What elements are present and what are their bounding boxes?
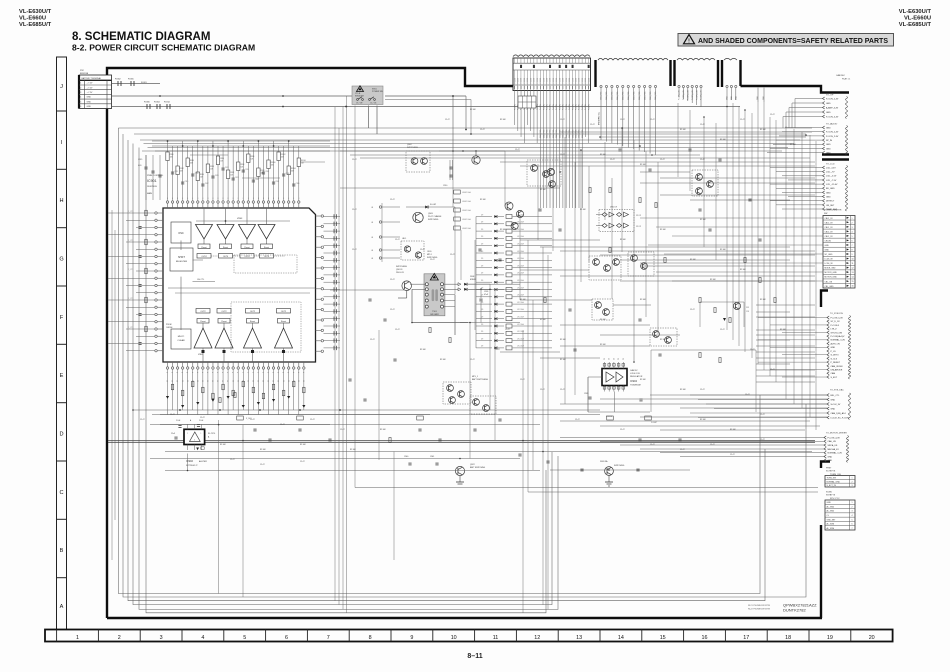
transistor	[733, 302, 740, 309]
wire bundle flex group2	[678, 85, 703, 107]
svg-text:R9 10K: R9 10K	[470, 109, 477, 111]
svg-text:C941: C941	[430, 456, 434, 458]
svg-text:MPL1: MPL1	[427, 254, 432, 256]
svg-text:C9 47: C9 47	[560, 119, 565, 121]
svg-text:REGULATOR: REGULATOR	[630, 375, 643, 378]
svg-text:C9 47: C9 47	[745, 394, 750, 396]
svg-text:D9: D9	[481, 265, 483, 267]
svg-text:On / Off: On / Off	[356, 102, 363, 104]
IC901 out latch row bottom	[196, 302, 301, 352]
svg-text:LCD6_3V: LCD6_3V	[825, 259, 834, 261]
svg-text:TO CAMERA: TO CAMERA	[597, 112, 600, 126]
svg-text:P-CON: P-CON	[540, 104, 542, 110]
svg-text:0.01: 0.01	[138, 165, 142, 167]
wire transformer primary	[398, 284, 468, 322]
svg-text:C9 47: C9 47	[310, 419, 315, 421]
svg-text:CAM_REG: CAM_REG	[616, 91, 619, 100]
svg-text:FL-DDB: FL-DDB	[606, 416, 613, 418]
wire main bus pair D row	[108, 441, 815, 443]
svg-text:R9 10K: R9 10K	[760, 299, 767, 301]
svg-text:P-CON: P-CON	[524, 77, 526, 83]
svg-text:CAM_REG: CAM_REG	[611, 91, 614, 100]
diode D905	[406, 204, 455, 208]
svg-text:8: 8	[852, 249, 853, 251]
svg-text:LCD4.2-5V: LCD4.2-5V	[630, 373, 641, 375]
svg-text:P-CON_4-3V: P-CON_4-3V	[696, 89, 698, 100]
node left terminal column	[371, 206, 400, 260]
svg-text:R9: R9	[197, 380, 199, 382]
svg-text:VREF: VREF	[237, 218, 243, 220]
svg-text:C9: C9	[604, 358, 606, 360]
svg-text:L9 2.2uH: L9 2.2uH	[517, 258, 525, 260]
transistor	[595, 302, 602, 309]
svg-text:R984: R984	[190, 160, 194, 162]
svg-text:D9: D9	[481, 346, 483, 348]
svg-text:2: 2	[118, 635, 121, 641]
svg-text:C_CTL: C_CTL	[128, 269, 133, 271]
svg-text:OSC: OSC	[178, 231, 184, 235]
svg-text:C9 47: C9 47	[420, 249, 425, 251]
svg-text:SW-MODE: SW-MODE	[355, 95, 365, 97]
svg-text:2: 2	[852, 222, 853, 224]
svg-text:C9 47: C9 47	[395, 329, 400, 331]
svg-text:C9 47: C9 47	[340, 429, 345, 431]
svg-text:R9: R9	[182, 380, 184, 382]
svg-text:C915: C915	[195, 173, 199, 175]
svg-text:P-CON: P-CON	[585, 104, 587, 110]
svg-text:R992: R992	[230, 172, 234, 174]
svg-text:L9 2.2uH: L9 2.2uH	[517, 302, 525, 304]
svg-text:C9 47: C9 47	[445, 119, 450, 121]
svg-text:C9 47: C9 47	[700, 159, 705, 161]
svg-text:Q901 S: Q901 S	[396, 269, 403, 271]
svg-text:CAM_REG: CAM_REG	[571, 129, 574, 138]
connector TO_OP labels	[823, 95, 848, 119]
svg-text:P-CON: P-CON	[543, 104, 545, 110]
svg-text:R9 10K: R9 10K	[680, 389, 687, 391]
wire junction dots	[132, 95, 807, 471]
svg-text:CAM_REG: CAM_REG	[539, 129, 542, 138]
svg-text:P-CON: P-CON	[588, 104, 590, 110]
svg-text:P-CON: P-CON	[530, 77, 532, 83]
svg-text:R9 10K: R9 10K	[440, 359, 447, 361]
transistor group Q917	[628, 252, 654, 276]
svg-text:CAM_REG: CAM_REG	[568, 129, 571, 138]
svg-text:P-CON_5-3V: P-CON_5-3V	[831, 317, 844, 319]
transistor group Q906 MPL switching	[401, 238, 424, 260]
svg-text:L9 2.2uH: L9 2.2uH	[517, 346, 525, 348]
svg-text:2SK-LC8: 2SK-LC8	[396, 272, 404, 274]
inductor FL805	[128, 79, 148, 87]
svg-text:C9 47: C9 47	[250, 419, 255, 421]
svg-text:C915: C915	[138, 159, 142, 161]
svg-text:R9102: R9102	[281, 154, 286, 156]
svg-text:R9 10K: R9 10K	[730, 429, 737, 431]
svg-text:D9: D9	[481, 338, 483, 340]
svg-text:C9 47: C9 47	[730, 454, 735, 456]
svg-text:C933: C933	[286, 173, 290, 175]
svg-text:BATT SWITCHING: BATT SWITCHING	[470, 466, 486, 469]
svg-text:CAM_1(M)_ADJ: CAM_1(M)_ADJ	[831, 412, 846, 415]
svg-text:4: 4	[80, 97, 81, 99]
connector TO_SYSCON labels	[827, 313, 851, 379]
svg-text:P-CON(LA-3)V: P-CON(LA-3)V	[831, 335, 845, 338]
svg-text:P-CON: P-CON	[553, 77, 555, 83]
svg-text:L9 2.2uH: L9 2.2uH	[517, 309, 525, 311]
svg-text:14: 14	[618, 635, 624, 641]
svg-text:R9: R9	[218, 380, 220, 382]
svg-text:C917: C917	[205, 183, 209, 185]
svg-text:LCD_4.5V: LCD_4.5V	[826, 167, 836, 169]
svg-text:R9: R9	[167, 380, 169, 382]
svg-text:C925: C925	[245, 169, 249, 171]
svg-text:SWITCHING: SWITCHING	[614, 465, 625, 467]
svg-text:SW-XMFR: SW-XMFR	[430, 314, 439, 316]
svg-text:22uF: 22uF	[171, 433, 175, 435]
svg-text:R9 10K: R9 10K	[720, 139, 727, 141]
svg-text:D9: D9	[481, 229, 483, 231]
svg-text:NORMAL_5-3V: NORMAL_5-3V	[828, 452, 843, 455]
svg-text:D920 3A: D920 3A	[600, 460, 608, 463]
svg-text:+ 7.2V: + 7.2V	[87, 92, 94, 94]
svg-text:C9 47: C9 47	[620, 119, 625, 121]
capacitor cluster above IC901 left	[138, 155, 162, 200]
svg-text:C929: C929	[265, 171, 269, 173]
svg-text:C9: C9	[618, 358, 620, 360]
svg-text:R9 10K: R9 10K	[380, 429, 387, 431]
transistor	[458, 391, 465, 398]
svg-text:SSTBTYS: SSTBTYS	[826, 495, 836, 497]
svg-text:CAM_REG: CAM_REG	[605, 91, 608, 100]
wire loop rectangles	[118, 128, 806, 613]
svg-text:R9 10K: R9 10K	[710, 279, 717, 281]
transistor	[505, 202, 513, 210]
svg-text:C9 47: C9 47	[575, 419, 580, 421]
svg-text:C9 47: C9 47	[660, 159, 665, 161]
transistor	[707, 181, 714, 188]
svg-text:8: 8	[369, 635, 372, 641]
inductor FL814	[164, 102, 171, 110]
svg-text:A: A	[60, 604, 64, 610]
svg-text:P-CON: P-CON	[540, 77, 542, 83]
svg-text:TO_SYS_DAC: TO_SYS_DAC	[830, 389, 844, 392]
svg-text:D9: D9	[481, 258, 483, 260]
svg-text:OUT2: OUT2	[250, 311, 256, 313]
svg-text:R9: R9	[248, 380, 250, 382]
svg-text:RL-Y970: RL-Y970	[208, 433, 215, 435]
svg-text:SW: SW	[824, 213, 827, 215]
svg-text:12: 12	[534, 635, 540, 641]
svg-text:Reset: Reset	[201, 246, 207, 249]
wire vertical bundles	[219, 96, 816, 613]
svg-text:CH CTL: CH CTL	[197, 279, 205, 281]
svg-text:P-CON: P-CON	[553, 104, 555, 110]
svg-text:AUTO_3V: AUTO_3V	[831, 342, 841, 345]
svg-text:VL-E660U: VL-E660U	[19, 16, 46, 22]
svg-text:R9 10K: R9 10K	[690, 259, 697, 261]
svg-text:SWITCHING: SWITCHING	[428, 219, 439, 221]
svg-text:CAM_REG: CAM_REG	[578, 129, 581, 138]
svg-text:MOTOR_GND: MOTOR_GND	[825, 272, 838, 274]
svg-text:R9: R9	[293, 380, 295, 382]
svg-text:P-CON: P-CON	[575, 77, 577, 83]
svg-text:R9: R9	[278, 380, 280, 382]
svg-text:C9 47: C9 47	[230, 459, 235, 461]
svg-text:R9: R9	[208, 380, 210, 382]
svg-text:VL-E660U: VL-E660U	[904, 16, 931, 22]
transistor	[413, 212, 423, 222]
transistor Q902	[411, 158, 418, 165]
svg-text:R9 10K: R9 10K	[420, 349, 427, 351]
svg-text:CAM_VDDM: CAM_VDDM	[831, 365, 843, 368]
svg-text:GND: GND	[826, 148, 831, 150]
svg-text:P-CON: P-CON	[585, 77, 587, 83]
svg-text:CBL_GND: CBL_GND	[825, 286, 835, 288]
svg-text:R9 10K: R9 10K	[700, 419, 707, 421]
svg-text:R9: R9	[283, 380, 285, 382]
svg-text:P-CON_4-3V: P-CON_4-3V	[828, 437, 841, 439]
svg-text:C9 47: C9 47	[650, 119, 655, 121]
connector POWER SW table	[823, 210, 855, 289]
svg-text:L9 2.2uH: L9 2.2uH	[517, 280, 525, 282]
svg-text:C921: C921	[225, 167, 229, 169]
svg-text:IC902: IC902	[186, 459, 193, 463]
transistor group Q910	[527, 160, 561, 186]
svg-text:3: 3	[80, 92, 81, 94]
svg-text:Q902: Q902	[407, 144, 412, 146]
svg-text:SRCA_US: SRCA_US	[828, 444, 838, 447]
svg-text:ON_SET: ON_SET	[826, 205, 835, 207]
IC901 internal shift register block	[170, 248, 193, 271]
svg-text:CAM: CAM	[831, 372, 836, 375]
svg-text:CBL2_3V: CBL2_3V	[825, 218, 834, 220]
label CAB REC PLAY	[836, 74, 851, 81]
svg-text:L906 2.2uH: L906 2.2uH	[462, 210, 472, 212]
svg-text:7: 7	[327, 635, 330, 641]
svg-text:R9 10K: R9 10K	[720, 249, 727, 251]
transistor	[447, 385, 454, 392]
svg-text:CAM_REG: CAM_REG	[600, 91, 603, 100]
svg-text:CAM_REG: CAM_REG	[542, 129, 545, 138]
op-amp U IC904 regulator	[602, 358, 643, 392]
svg-text:LCD_-7.5V: LCD_-7.5V	[826, 180, 837, 182]
svg-text:D9: D9	[481, 309, 483, 311]
svg-text:YUM2856M: YUM2856M	[630, 385, 641, 387]
svg-text:OUT4: OUT4	[244, 256, 250, 258]
IC901 left pins	[155, 212, 163, 352]
transistor	[516, 210, 523, 217]
svg-text:D9: D9	[481, 280, 483, 282]
svg-text:R9 10K: R9 10K	[560, 359, 567, 361]
svg-text:CAM_REG: CAM_REG	[622, 91, 625, 100]
svg-text:Oa / Ob: Oa / Ob	[370, 102, 376, 104]
IC901 internal multi clear block	[166, 324, 191, 349]
svg-text:GND: GND	[826, 144, 831, 146]
transistor	[455, 466, 464, 475]
transistor	[696, 174, 703, 181]
svg-text:MULTI: MULTI	[178, 336, 185, 338]
svg-text:R9 10K: R9 10K	[790, 144, 797, 146]
svg-text:GND: GND	[828, 460, 833, 462]
svg-text:P-CON: P-CON	[579, 77, 581, 83]
transistor group Q919	[592, 299, 613, 320]
svg-text:CBL_ON: CBL_ON	[825, 281, 833, 283]
svg-text:C923: C923	[235, 177, 239, 179]
transistor group Q902 Q903 switching	[406, 144, 430, 172]
svg-text:FL806: FL806	[144, 102, 151, 104]
svg-text:R982: R982	[180, 168, 184, 170]
svg-text:L9 2.2uH: L9 2.2uH	[517, 324, 525, 326]
svg-text:OR-D: OR-D	[427, 251, 432, 253]
svg-text:P-CON: P-CON	[588, 77, 590, 83]
svg-text:R9106: R9106	[301, 160, 306, 162]
svg-text:R9: R9	[238, 380, 240, 382]
svg-text:FL801: FL801	[141, 82, 148, 84]
wire battery gnd bus	[112, 106, 741, 108]
svg-text:P-CON: P-CON	[566, 77, 568, 83]
svg-text:11: 11	[852, 263, 854, 265]
svg-text:L9 2.2uH: L9 2.2uH	[517, 244, 525, 246]
svg-text:MOTOR_GND: MOTOR_GND	[825, 277, 838, 279]
wire box around Q923	[700, 302, 749, 327]
svg-text:AL_VDM: AL_VDM	[827, 523, 835, 526]
svg-text:AL_GND: AL_GND	[827, 510, 835, 513]
svg-text:BFL_CTL: BFL_CTL	[831, 395, 841, 397]
svg-text:C9 47: C9 47	[770, 369, 775, 371]
svg-text:POWER HDMHTR: POWER HDMHTR	[824, 210, 842, 212]
svg-text:17: 17	[743, 635, 749, 641]
svg-text:R9: R9	[233, 380, 235, 382]
svg-text:R9: R9	[243, 380, 245, 382]
svg-text:OUT2: OUT2	[200, 311, 206, 313]
svg-text:L9 2.2uH: L9 2.2uH	[517, 251, 525, 253]
svg-text:C9 47: C9 47	[495, 349, 500, 351]
svg-text:8-2. POWER CIRCUIT SCHEMATIC D: 8-2. POWER CIRCUIT SCHEMATIC DIAGRAM	[72, 43, 255, 53]
transistor group Q916	[589, 256, 621, 280]
svg-text:R9: R9	[263, 380, 265, 382]
svg-text:PILOT CHARGE: PILOT CHARGE	[428, 215, 442, 218]
svg-text:C9 47: C9 47	[200, 417, 205, 419]
svg-text:10: 10	[852, 259, 854, 261]
svg-text:C9 47: C9 47	[520, 379, 525, 381]
transistor	[543, 171, 550, 178]
svg-text:MODE_GND: MODE_GND	[825, 268, 837, 270]
wire bundle flex group3	[726, 85, 765, 102]
svg-text:L906 2.2uH: L906 2.2uH	[462, 228, 472, 230]
svg-text:R9: R9	[288, 380, 290, 382]
IC901 bottom pins	[166, 362, 305, 373]
svg-text:R9: R9	[172, 380, 174, 382]
svg-text:BU_GND: BU_GND	[826, 188, 835, 190]
svg-text:P-CON: P-CON	[534, 77, 536, 83]
page header models left	[19, 9, 52, 28]
svg-text:P-CON: P-CON	[575, 104, 577, 110]
svg-text:OUT4: OUT4	[223, 256, 229, 258]
switch S901 POWER SW (safety shaded)	[352, 86, 383, 105]
svg-text:5: 5	[852, 236, 853, 238]
svg-text:C_CTL: C_CTL	[128, 327, 133, 329]
svg-text:C9 47: C9 47	[505, 329, 510, 331]
wire bundle CN901 outputs	[514, 91, 590, 209]
svg-text:D9: D9	[481, 302, 483, 304]
svg-text:R9: R9	[298, 380, 300, 382]
svg-text:P-CON: P-CON	[556, 104, 558, 110]
svg-text:CBL2_3V: CBL2_3V	[825, 231, 834, 233]
svg-text:AL_VDM: AL_VDM	[827, 527, 835, 530]
svg-text:L9 2.2uH: L9 2.2uH	[517, 338, 525, 340]
svg-text:6: 6	[285, 635, 288, 641]
svg-text:PLAY 1 1: PLAY 1 1	[842, 78, 851, 81]
svg-text:R9: R9	[213, 380, 215, 382]
svg-text:R9 10K: R9 10K	[640, 379, 647, 381]
svg-text:LCD-E_SC_P-CON: LCD-E_SC_P-CON	[831, 417, 850, 419]
svg-text:C9 47: C9 47	[760, 414, 765, 416]
svg-text:1: 1	[852, 477, 853, 479]
transistor	[603, 309, 610, 316]
svg-text:Reset: Reset	[223, 246, 229, 249]
svg-text:D911 D9: D911 D9	[610, 207, 617, 209]
svg-text:Reset: Reset	[250, 320, 256, 323]
svg-text:8. SCHEMATIC DIAGRAM: 8. SCHEMATIC DIAGRAM	[72, 31, 210, 43]
svg-text:R9 10K: R9 10K	[680, 129, 687, 131]
svg-text:IC901: IC901	[147, 179, 157, 183]
svg-text:C9 47: C9 47	[540, 389, 545, 391]
inductor FL806	[144, 102, 151, 110]
svg-text:TO_SYSCON: TO_SYSCON	[830, 313, 843, 315]
svg-text:L9 2.2uH: L9 2.2uH	[517, 331, 525, 333]
svg-text:C9 47: C9 47	[170, 414, 175, 416]
svg-text:GND: GND	[826, 103, 831, 105]
connector TURN_SW table	[825, 468, 855, 488]
svg-text:P-CON: P-CON	[547, 77, 549, 83]
svg-text:FL-LBY: FL-LBY	[430, 204, 437, 206]
connector sub table	[518, 96, 536, 108]
svg-text:LCD6_3V: LCD6_3V	[825, 263, 834, 265]
svg-text:DETECT: DETECT	[826, 201, 835, 203]
secondary rectifier labels	[470, 276, 489, 323]
svg-text:C9 47: C9 47	[770, 114, 775, 116]
svg-text:PROM: PROM	[166, 324, 172, 326]
inverter chain D911 group	[596, 207, 641, 232]
svg-text:CAM_REG: CAM_REG	[555, 129, 558, 138]
wire power switch output	[369, 96, 472, 135]
svg-text:4: 4	[852, 231, 853, 233]
svg-text:C_CTL: C_CTL	[128, 240, 133, 242]
svg-text:SWITCHING: SWITCHING	[396, 266, 407, 268]
svg-text:OUT2: OUT2	[221, 311, 227, 313]
svg-text:BRKNTA: BRKNTA	[80, 72, 89, 75]
svg-text:P-CON_4-3V: P-CON_4-3V	[688, 89, 690, 100]
svg-text:GND: GND	[87, 106, 92, 108]
transistor Q903	[421, 158, 428, 165]
svg-text:L9 2.2uH: L9 2.2uH	[517, 222, 525, 224]
svg-text:CAM_REG: CAM_REG	[627, 91, 630, 100]
svg-text:C93: C93	[746, 311, 749, 313]
svg-text:GND: GND	[826, 153, 831, 155]
connector TO_MOTOR_DRIVER labels	[824, 433, 849, 463]
svg-text:R9 10K: R9 10K	[500, 229, 507, 231]
transistor	[473, 399, 480, 406]
svg-text:P-CON: P-CON	[582, 77, 584, 83]
svg-text:18: 18	[785, 635, 791, 641]
svg-text:R986: R986	[200, 174, 204, 176]
svg-text:C940: C940	[404, 456, 408, 458]
svg-text:P-CON: P-CON	[514, 77, 516, 83]
svg-text:P-CON-5: P-CON-5	[831, 325, 840, 327]
resistor array above IC901	[166, 140, 325, 201]
svg-text:3: 3	[852, 511, 853, 513]
schematic frame border	[107, 60, 849, 618]
